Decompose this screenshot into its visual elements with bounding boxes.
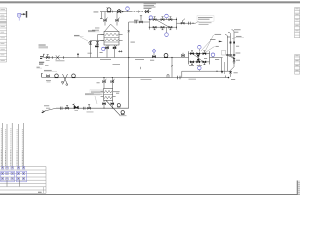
spec break mark [118,50,122,52]
top border bar [0,1,300,3]
left legend shaded row [0,21,7,24]
leader to V2 note [95,96,97,104]
right branch riser 1 [225,35,229,72]
right branch top labels [232,29,244,38]
field wire 5 [22,123,23,168]
block 1 internal diagonal [157,20,169,27]
block 2 valves top rail [190,53,206,55]
block 2 outlet line [182,58,231,78]
riser to exchanger E1 right [116,12,120,26]
pump P4 on header 3 [72,74,76,78]
pump P5 on header 4 [117,104,120,107]
dark tag under header 2 [39,62,49,66]
off-page connector flag FC-1 [18,11,28,21]
control valve CV-1 [150,49,156,60]
vessel V2 inlet valve right [111,77,115,89]
instrument balloon below block 2 [198,64,202,71]
spec break on riser [128,30,130,32]
terminal blocks row 2 [1,172,24,174]
block 1 valve stems bottom [154,27,172,30]
E1 side line left inner [95,35,104,58]
bottom left wiring table [0,167,46,194]
field wire 1 [1,123,2,168]
left legend table [0,8,7,62]
bottom border line [0,194,300,196]
header 3 end junction dot [228,77,230,79]
header pipe 1 [94,10,152,13]
valve on down pipe [233,58,240,63]
small valve on header 4 [61,107,63,110]
valve on jog [229,71,237,73]
block 1 valves top rail [153,19,172,21]
V2 outlet valve left [103,100,106,108]
small box right of outlet [222,50,226,55]
V2 inlet label [97,81,100,84]
header 3 source labels [37,67,58,72]
label fan above block 2 [201,34,230,52]
exchanger E1 shell [104,32,119,46]
valve on header 1 [117,9,121,13]
terminal blocks row 3 [1,178,24,180]
check valve with flag on header 1 [139,8,151,13]
instrument balloon LI-2 [100,47,106,53]
right branch mid marks [230,42,235,44]
pump P6 on header 4 [120,111,127,116]
vessel V2 shell [104,89,113,101]
down pipe right branch [233,57,235,67]
field wire 4 [17,124,18,168]
block 1 corner dots [149,19,177,28]
note box right of block 1 [197,16,214,25]
junction dot riser-header3 [128,77,129,78]
header pipe 3 [42,77,229,79]
valve at header 3 start [46,75,51,83]
header 3 labels below [141,79,197,80]
E1 outlet valve right [113,45,117,58]
control valve dark on header 4 [72,104,78,111]
riser to exchanger E1 left [104,12,108,26]
branch line to valve block 1 [129,21,150,23]
right spec table lower [295,55,300,75]
header 2 label b [135,58,144,61]
gate valve at header 2 start [46,55,65,62]
junction dots on header 4 under V2 [103,108,112,109]
bypass diagonal under V2 [106,101,120,116]
block 1 valve stems top [154,17,172,20]
riser label [131,41,135,44]
note block top [144,3,157,9]
header 3 left bracket [42,73,43,77]
outlet valve with stem [181,19,185,25]
down pipe to header 3 [171,58,173,78]
spec marks header 3 right [178,76,181,80]
right spec table lower cell marks [295,55,298,71]
block 1 outlet line [177,22,196,24]
pump P1 on header 1 [107,8,111,12]
crossover junction on header 3 [61,74,67,86]
header 2 label a [100,58,111,61]
valve with cap on header 4 [87,105,94,113]
pump P2 on header 2 [164,54,168,58]
strainer on header 2 [52,55,63,59]
header pipe 2 [44,57,189,59]
vessel V2 labels [85,93,119,95]
terminal group outline A [1,171,15,182]
exchanger E1 dome [105,24,119,31]
drain arrow on header 3 [221,71,224,74]
right branch mid labels [236,46,241,54]
block 2 center crossover [194,54,203,62]
right branch riser 3 [232,30,236,57]
instrument balloon above block 1 [165,14,169,19]
leader to note box [196,21,200,23]
vessel V2 nozzles [101,92,120,97]
bottom left table note [38,191,42,194]
exchanger E1 nozzles [100,35,122,41]
instrument balloon above block 2 [198,45,202,51]
side tag dark [40,56,43,59]
branch line label [134,19,138,22]
header 2 left bracket [44,54,45,57]
tick on header 1 [112,11,114,13]
terminal stubs down [7,180,19,186]
right spec table upper [295,8,300,38]
right spec table upper cell marks [295,8,298,31]
block 2 stems bottom [191,62,205,65]
label above header 2 [88,52,92,55]
valve block 1 frame [149,18,176,30]
junction dot header 1 [122,11,123,12]
drain stub on header 1 [100,12,103,19]
right branch riser 2 [228,32,232,56]
check marks on header 4 [83,107,85,110]
header 3 end label [231,78,235,81]
instrument balloon below block 1 [165,27,169,36]
V2 outlet valve right [111,100,114,108]
terminal blocks row 1 [1,167,24,169]
junction dot outlet [192,23,193,24]
instrument balloon PI-1 [126,7,130,12]
E1 side line left outer [88,40,104,57]
instrument balloon on outlet [211,53,215,58]
E1 outlet valve left [106,45,110,58]
jog in down pipe [231,67,235,77]
header 2 source labels [39,45,49,49]
header 4 source connector [42,105,56,113]
header pipe 4 [56,107,129,109]
left legend row text marks [1,9,6,61]
outlet labels [189,58,219,66]
tick on header 3 [225,76,227,78]
valve on header 2 right [181,53,184,58]
field wire 2 [6,124,7,168]
instrument balloon left of block 1 [149,16,152,21]
outlet check mark [189,22,191,25]
riser merge diagonals [228,54,235,58]
exchanger E1 label [88,28,100,32]
block 2 stems top [191,51,205,54]
drain tee on branch line [135,21,137,24]
flow arrow on header 2 [77,53,79,58]
gate valve on header 4 [66,105,69,109]
note block near V2 [90,90,104,95]
valve block 2 frame [189,51,210,64]
junction dot riser-header2 [128,57,129,58]
terminal group outline B [17,171,27,182]
main riser pipe [128,22,130,108]
field wire 3 [11,123,12,168]
pump P3 on header 3 [55,74,59,78]
valve with handwheel on branch line [140,16,143,23]
M-mark on header 3 [167,75,169,78]
block 1 valves bottom rail [153,26,172,28]
block 2 valves bottom rail [190,61,206,63]
vessel V2 inlet valve left [103,77,107,89]
side line labels [74,30,99,41]
bottom right title stub [297,181,300,195]
junction dot header2-downpipe [171,57,172,58]
